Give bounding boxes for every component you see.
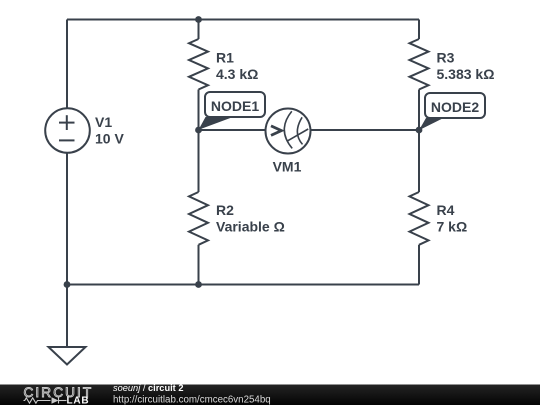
resistor R1: [189, 39, 208, 90]
svg-text:NODE2: NODE2: [431, 99, 479, 115]
node NODE1 junction dot: [195, 127, 202, 134]
node junction dot top (R1 top): [195, 16, 202, 23]
wire right branch bottom (R4 bottom lead): [418, 245, 420, 285]
resistor R3: [410, 39, 429, 90]
wire bottom horizontal: [67, 284, 419, 286]
svg-text:LAB: LAB: [67, 395, 90, 405]
svg-text:Variable Ω: Variable Ω: [216, 219, 285, 235]
svg-text:10 V: 10 V: [95, 131, 124, 147]
voltmeter VM1: [266, 109, 311, 154]
svg-text:http://circuitlab.com/cmcec6vn: http://circuitlab.com/cmcec6vn254bq: [113, 395, 271, 405]
svg-text:R4: R4: [437, 202, 455, 218]
wire VM1 left lead: [199, 129, 267, 131]
node junction dot bottom middle (R2 bottom): [195, 281, 202, 288]
logo resistor-diode glyph: [24, 398, 67, 404]
svg-text:R3: R3: [437, 50, 455, 66]
wire middle branch bottom (R2 bottom lead): [198, 245, 200, 285]
wire middle branch mid (R1-R2 link): [198, 90, 200, 193]
svg-text:NODE1: NODE1: [211, 98, 259, 114]
resistor R4: [410, 192, 429, 245]
wire right branch mid (R3-R4 link): [418, 90, 420, 193]
wire right branch top (R3 top lead): [418, 20, 420, 40]
svg-text:R1: R1: [216, 50, 234, 66]
svg-text:7 kΩ: 7 kΩ: [437, 219, 468, 235]
svg-text:R2: R2: [216, 202, 234, 218]
voltage source V1: [45, 108, 90, 153]
svg-text:soeunj / circuit 2: soeunj / circuit 2: [113, 383, 183, 393]
svg-text:5.383 kΩ: 5.383 kΩ: [437, 66, 495, 82]
logo diode triangle: [52, 397, 59, 403]
node label NODE2 callout bubble: [419, 93, 485, 130]
ground: [49, 347, 86, 365]
svg-text:V1: V1: [95, 114, 112, 130]
wire left branch upper (V1 top lead): [66, 20, 68, 109]
wire top horizontal: [67, 19, 419, 21]
footer bar: [0, 385, 540, 405]
wire VM1 right lead: [310, 129, 419, 131]
node NODE2 junction dot: [416, 127, 423, 134]
wire left branch lower (V1 bottom lead): [66, 153, 68, 348]
resistor R2: [189, 192, 208, 245]
node label NODE1 callout bubble: [199, 92, 266, 130]
svg-text:VM1: VM1: [273, 159, 302, 175]
wire middle branch top (R1 top lead): [198, 20, 200, 40]
svg-text:4.3 kΩ: 4.3 kΩ: [216, 66, 258, 82]
node junction dot bottom left (V1 bottom): [64, 281, 71, 288]
